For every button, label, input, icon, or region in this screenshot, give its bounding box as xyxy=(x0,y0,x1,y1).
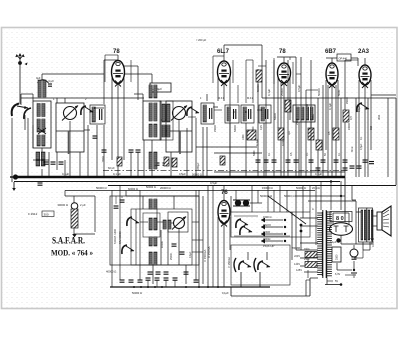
svg-text:50000: 50000 xyxy=(234,125,237,132)
svg-text:50000: 50000 xyxy=(317,88,321,96)
coil L5 xyxy=(149,85,157,98)
capacitor C9 xyxy=(172,244,185,254)
wire xyxy=(230,123,264,177)
switch S5b xyxy=(254,258,270,272)
svg-text:50000: 50000 xyxy=(256,84,260,92)
switch S1d xyxy=(38,128,46,134)
tube V4 label 6B7 xyxy=(325,49,337,55)
switch S1a xyxy=(12,104,28,117)
variable capacitor C1 xyxy=(62,106,78,121)
label 200uF xyxy=(196,38,207,42)
switch S5a xyxy=(234,258,251,272)
svg-text:30000 Ω: 30000 Ω xyxy=(57,203,68,207)
tube V2 type 6L7 xyxy=(218,61,231,86)
svg-text:6L.7: 6L.7 xyxy=(217,49,230,55)
wire xyxy=(57,98,65,103)
wire antenna lead xyxy=(19,64,21,104)
svg-text:20 mΩ: 20 mΩ xyxy=(312,186,320,190)
label chain row xyxy=(108,166,202,177)
wire xyxy=(192,222,203,252)
svg-text:0,1μF: 0,1μF xyxy=(330,241,337,244)
svg-text:2500: 2500 xyxy=(336,254,339,260)
output transformer T4 left winding xyxy=(361,210,366,240)
wire xyxy=(387,98,389,177)
svg-text:0,1μF: 0,1μF xyxy=(62,172,69,176)
wire top bus xyxy=(261,45,263,98)
tube V7 rectifier 80 xyxy=(330,223,353,236)
resistor R16 xyxy=(220,156,225,165)
svg-text:78: 78 xyxy=(113,49,120,55)
label left values xyxy=(36,76,87,101)
wire mid rail xyxy=(214,171,345,173)
svg-text:0,1μF: 0,1μF xyxy=(222,291,229,295)
oscillator box xyxy=(110,196,199,265)
label trimm rows xyxy=(292,247,303,272)
wire xyxy=(131,152,138,177)
wire xyxy=(359,58,371,177)
svg-text:5000: 5000 xyxy=(253,150,256,156)
capacitor C2c xyxy=(38,183,43,185)
capacitor bottom row xyxy=(120,280,199,282)
switch S6 muting xyxy=(357,103,369,112)
wire xyxy=(345,59,358,61)
wire AVC line xyxy=(262,97,396,99)
label 50000 xyxy=(260,194,295,198)
capacitor C2 xyxy=(51,162,64,164)
svg-text:MOD. « 764 »: MOD. « 764 » xyxy=(51,248,93,258)
svg-text:30Ω: 30Ω xyxy=(377,115,381,120)
node B+ dot xyxy=(336,238,340,242)
coil L1 with trimmer xyxy=(38,79,54,97)
wire HT feed row xyxy=(295,196,356,212)
tube V1 shield xyxy=(105,55,131,82)
wire xyxy=(326,80,338,177)
tube V5 label 2A3 xyxy=(358,49,370,55)
wire xyxy=(326,58,358,66)
tuning gang box 2 xyxy=(166,101,192,152)
svg-text:5V: 5V xyxy=(335,280,338,283)
IF transformer T2 box B xyxy=(241,105,254,123)
wire bus 3 xyxy=(108,185,396,187)
svg-text:PICK-UP: PICK-UP xyxy=(263,244,274,248)
capacitor bank row xyxy=(256,160,348,162)
switch S2 xyxy=(187,107,199,116)
resistor R11 xyxy=(304,248,317,258)
node bottom bus junctions xyxy=(133,286,219,288)
potentiometer knob xyxy=(71,203,78,210)
label speaker xyxy=(351,143,375,247)
svg-text:2500: 2500 xyxy=(304,258,310,261)
coil L12 xyxy=(149,252,157,265)
svg-text:M.F.1: M.F.1 xyxy=(218,97,225,100)
mains switch box xyxy=(231,245,290,285)
wire chassis chain line xyxy=(103,170,345,172)
coil T1 primary xyxy=(203,105,206,122)
output transformer box xyxy=(359,208,373,242)
wire xyxy=(213,106,218,108)
tube V2 shield xyxy=(213,56,233,83)
svg-text:15000 Ω: 15000 Ω xyxy=(262,186,273,190)
svg-text:0,25: 0,25 xyxy=(260,125,263,130)
wire bias branch xyxy=(65,191,95,233)
tube V3 shield xyxy=(274,58,293,84)
svg-text:6,3V: 6,3V xyxy=(335,273,340,276)
label top caps xyxy=(253,150,341,156)
wire bottom bus xyxy=(110,286,270,288)
wire xyxy=(231,196,256,212)
label V150 xyxy=(203,250,207,262)
svg-text:0,5μF: 0,5μF xyxy=(179,172,186,176)
wire bottom right xyxy=(325,278,342,286)
label mid col xyxy=(197,162,211,258)
variable capacitor C5 xyxy=(171,106,187,121)
wire xyxy=(94,107,104,109)
svg-text:RADIO: RADIO xyxy=(263,224,271,227)
capacitor C6 xyxy=(155,163,168,165)
resistor R15 xyxy=(172,158,177,167)
capacitor bottom row 2 xyxy=(146,278,178,280)
ground stub left xyxy=(12,182,16,191)
wire mains lead xyxy=(231,278,310,296)
wire xyxy=(363,242,370,250)
transformer T3 secondary winding xyxy=(327,211,332,278)
label bus tiny xyxy=(132,291,229,295)
svg-text:5000: 5000 xyxy=(337,89,341,96)
svg-text:0,1μF: 0,1μF xyxy=(267,89,271,96)
wire mains pair xyxy=(306,280,310,296)
wire rectifier leads xyxy=(333,213,349,244)
svg-text:1000: 1000 xyxy=(242,134,245,140)
svg-text:A: A xyxy=(312,207,314,211)
wire xyxy=(41,148,43,177)
small value labels group xyxy=(255,84,381,146)
IF transformer T2 box A xyxy=(225,105,239,123)
wire xyxy=(352,186,356,201)
coil L7 xyxy=(149,152,157,169)
svg-text:50000 Ω: 50000 Ω xyxy=(284,194,295,198)
resistor R10 field coil xyxy=(332,247,341,262)
svg-text:50000 Ω: 50000 Ω xyxy=(146,185,156,189)
tube V6 type 76 xyxy=(218,201,230,227)
capacitor C8 xyxy=(148,272,189,274)
svg-text:50000 Ω: 50000 Ω xyxy=(96,186,107,190)
capacitor C4 xyxy=(129,150,141,152)
label dense top right xyxy=(260,113,331,135)
wire xyxy=(56,152,58,170)
svg-text:25000: 25000 xyxy=(214,125,217,132)
label V150 right xyxy=(227,257,231,268)
resistor R3 xyxy=(247,130,256,140)
tone inner wires xyxy=(234,212,292,236)
oscillator sub box xyxy=(168,212,188,232)
coil L8a xyxy=(296,107,304,120)
svg-text:1500Ω: 1500Ω xyxy=(263,238,271,241)
rectifier label box xyxy=(330,212,352,222)
coil L3 xyxy=(36,152,45,166)
svg-text:1500 Ω: 1500 Ω xyxy=(263,215,271,219)
wire xyxy=(241,252,267,287)
output transformer T4 right winding xyxy=(368,210,373,240)
svg-text:2500: 2500 xyxy=(296,119,299,125)
wire xyxy=(246,60,253,103)
wire heater row xyxy=(327,275,352,281)
wire xyxy=(203,94,207,177)
svg-text:50000 Ω: 50000 Ω xyxy=(192,173,202,177)
wire xyxy=(218,78,230,177)
wire vertical feed group xyxy=(258,57,345,177)
svg-text:0,1μF: 0,1μF xyxy=(255,139,259,146)
svg-text:760Ω: 760Ω xyxy=(102,156,105,162)
svg-text:300Ω: 300Ω xyxy=(312,114,315,120)
capacitor C15 electrolytic xyxy=(350,245,358,259)
wire xyxy=(48,152,50,177)
wire xyxy=(74,228,95,234)
svg-text:TRIMM: TRIMM xyxy=(292,247,300,250)
wire xyxy=(79,152,81,177)
wire xyxy=(354,250,363,258)
wire HT line xyxy=(341,212,374,244)
svg-text:0,1μF: 0,1μF xyxy=(358,105,361,112)
coil L13 xyxy=(163,220,171,229)
coil L6b xyxy=(149,124,157,137)
wire xyxy=(161,120,179,177)
wire xyxy=(340,181,342,210)
tube V2 label 6L.7 xyxy=(217,49,230,55)
svg-text:FONO: FONO xyxy=(263,231,270,234)
coil L8b xyxy=(306,107,313,120)
tuning shaft link xyxy=(69,131,181,154)
wire xyxy=(124,74,152,83)
svg-text:25000: 25000 xyxy=(346,97,349,104)
wire xyxy=(277,57,296,177)
capacitor C2b xyxy=(44,150,107,164)
resistor R13 xyxy=(117,157,122,166)
oscillator inner box xyxy=(131,209,192,265)
transformer T3 primary winding xyxy=(317,212,322,276)
wire xyxy=(188,116,196,118)
wire top link xyxy=(33,74,104,104)
label osc values xyxy=(161,240,192,260)
svg-text:0,5μF: 0,5μF xyxy=(297,85,301,92)
capacitor C17 xyxy=(363,160,375,164)
wire xyxy=(143,196,186,284)
svg-text:140V: 140V xyxy=(294,263,300,266)
svg-text:50000 Ω: 50000 Ω xyxy=(132,291,142,295)
tube V6 label 76 xyxy=(221,190,228,196)
svg-text:76: 76 xyxy=(221,190,228,196)
variable capacitor C7 xyxy=(172,217,186,230)
svg-text:V 150mA: V 150mA xyxy=(227,257,231,268)
svg-text:300: 300 xyxy=(44,213,49,217)
wire xyxy=(144,140,152,177)
wire xyxy=(237,85,239,103)
svg-text:7000: 7000 xyxy=(304,248,310,251)
resistor box OP446 xyxy=(337,54,351,61)
label 80 area xyxy=(330,241,337,244)
svg-text:8 0: 8 0 xyxy=(336,216,344,222)
coil L11 xyxy=(149,237,157,246)
svg-text:4μF: 4μF xyxy=(36,76,41,80)
coil L2b xyxy=(37,119,45,132)
wire link xyxy=(134,94,143,101)
label tone rows xyxy=(263,224,271,241)
svg-text:2 μF: 2 μF xyxy=(80,203,86,207)
svg-text:20000 Ω: 20000 Ω xyxy=(160,186,171,190)
svg-text:0,5: 0,5 xyxy=(349,116,353,120)
wire right col feeds xyxy=(296,185,303,218)
mixer coil box xyxy=(143,101,161,140)
wire xyxy=(224,45,262,61)
svg-text:2A3: 2A3 xyxy=(358,49,370,55)
wire xyxy=(153,229,179,284)
HF trimmer box xyxy=(150,83,171,92)
wire xyxy=(353,261,355,271)
wire bus 4 xyxy=(65,190,315,192)
node chassis terminal xyxy=(10,174,18,179)
coil L10 xyxy=(149,218,157,230)
svg-text:0,5μF: 0,5μF xyxy=(360,143,363,150)
volume potentiometer xyxy=(233,200,250,206)
wire xyxy=(96,125,98,177)
svg-text:0,5μF: 0,5μF xyxy=(210,181,217,185)
wire xyxy=(27,118,29,177)
switch S4b xyxy=(240,226,252,235)
wire mid row xyxy=(196,147,262,153)
label taratura xyxy=(113,228,122,244)
junction dots row xyxy=(41,176,231,178)
antenna xyxy=(15,53,27,65)
svg-text:V 150mA: V 150mA xyxy=(207,246,211,258)
svg-text:0,1μF: 0,1μF xyxy=(328,103,332,110)
capacitor C3 xyxy=(93,136,98,138)
wire diag detector xyxy=(268,196,306,224)
wire xyxy=(292,203,296,260)
IF transformer T1 box xyxy=(201,103,214,124)
wire transformer taps xyxy=(296,218,318,272)
tube V7 label 80 xyxy=(336,216,344,222)
brand text MOD 764 xyxy=(51,248,93,258)
wire xyxy=(12,115,25,177)
wire gang divider xyxy=(56,130,192,132)
ground bus main xyxy=(14,176,345,179)
switch S3b xyxy=(122,245,134,254)
resistor R14 xyxy=(164,157,169,166)
wire xyxy=(300,226,302,250)
capacitor C16 xyxy=(316,168,348,170)
coil L1 hump xyxy=(38,80,49,83)
power labels xyxy=(312,207,340,283)
svg-text:6B7: 6B7 xyxy=(325,49,337,55)
wire top row left xyxy=(21,97,144,99)
detector coil box xyxy=(293,105,315,122)
label under bus xyxy=(128,185,156,191)
svg-text:78: 78 xyxy=(279,49,286,55)
wire xyxy=(69,121,71,177)
wire screen feed xyxy=(104,55,118,74)
wire plate link xyxy=(124,66,138,100)
svg-text:10000: 10000 xyxy=(161,240,164,248)
resistor R12 xyxy=(304,258,317,268)
svg-text:0,1μF: 0,1μF xyxy=(189,251,192,258)
node HT dots xyxy=(330,180,342,197)
label 40000 xyxy=(106,270,116,274)
brand text SAFAR xyxy=(52,236,85,246)
label IF xyxy=(200,97,254,100)
svg-text:TARAT. 1400: TARAT. 1400 xyxy=(113,228,117,244)
svg-text:40000 Ω: 40000 Ω xyxy=(106,270,116,274)
svg-text:50000: 50000 xyxy=(274,113,277,120)
tube V1 label 78 xyxy=(113,49,120,55)
label 760 xyxy=(102,156,105,162)
wire right verticals2 xyxy=(356,98,368,177)
wire mid verticals xyxy=(199,185,208,287)
wire xyxy=(299,122,311,177)
wire xyxy=(187,118,196,177)
svg-text:10000: 10000 xyxy=(281,138,285,146)
wire link row xyxy=(33,130,90,160)
label under bus right xyxy=(296,186,320,190)
svg-text:V30μF: V30μF xyxy=(197,162,200,170)
wire xyxy=(202,196,204,284)
switch S1c xyxy=(81,106,93,115)
resistor column group xyxy=(256,70,349,150)
wire speaker leads xyxy=(373,216,377,226)
ground sym xyxy=(351,273,357,277)
wire xyxy=(395,98,397,185)
svg-text:350: 350 xyxy=(370,125,373,130)
node contact A xyxy=(300,224,303,227)
tube V4 type 6B7 xyxy=(326,63,338,88)
coil L2c xyxy=(37,135,45,146)
wire xyxy=(116,196,122,204)
coil L9 xyxy=(149,199,157,209)
resistor R1 30000 xyxy=(57,203,86,228)
coil L6c xyxy=(160,101,173,140)
wire xyxy=(112,78,124,177)
svg-text:60000 Ω: 60000 Ω xyxy=(128,187,138,191)
wire xyxy=(103,125,105,177)
wire grid bus xyxy=(21,94,33,105)
coil L4 box xyxy=(90,105,105,124)
svg-text:30 Ω: 30 Ω xyxy=(351,147,354,152)
switch contact rows xyxy=(261,218,286,244)
wire feeder xyxy=(344,177,346,222)
label top right row2 xyxy=(346,97,361,112)
node contact B xyxy=(300,230,303,233)
svg-text:4 μF: 4 μF xyxy=(48,79,54,83)
tube V5 type 2A3 xyxy=(359,65,371,88)
wire xyxy=(64,160,66,177)
wire xyxy=(256,202,262,204)
wire xyxy=(337,263,352,270)
wire xyxy=(87,125,89,177)
svg-text:≈ 200 μF: ≈ 200 μF xyxy=(196,38,207,42)
capacitor C14 xyxy=(350,166,362,168)
loudspeaker xyxy=(377,206,391,236)
wire xyxy=(32,125,34,148)
wire IF links xyxy=(214,110,262,112)
label pickup xyxy=(263,215,274,248)
label right tiny xyxy=(348,123,373,140)
wire osc feed xyxy=(126,191,199,197)
tube V1 type 78 xyxy=(112,61,125,87)
transformer T4 core xyxy=(366,208,368,242)
wire lower vertical group xyxy=(112,181,331,287)
svg-text:S.A.F.A.R.: S.A.F.A.R. xyxy=(52,236,85,246)
antenna coil box xyxy=(33,101,51,148)
wire xyxy=(136,209,157,265)
power transformer T3 core xyxy=(323,210,326,278)
